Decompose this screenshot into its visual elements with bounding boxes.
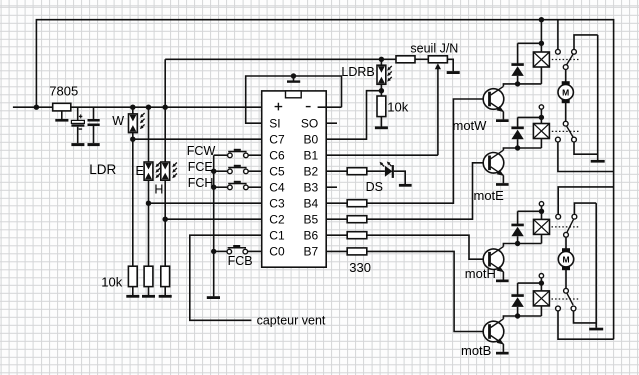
lever H — [567, 219, 574, 232]
svg-text:motB: motB — [461, 343, 491, 358]
pin B3 stub — [326, 186, 337, 188]
node diode B bottom — [515, 313, 520, 318]
node rail W — [130, 105, 135, 110]
svg-text:B5: B5 — [304, 212, 319, 226]
svg-text:LDRB: LDRB — [341, 65, 374, 79]
resistor 10k day/night — [377, 96, 386, 117]
motor M elevation — [558, 248, 573, 270]
node rail H — [163, 105, 168, 110]
ground DS — [394, 171, 405, 184]
wire diode H link top — [518, 210, 542, 212]
contact H pole — [564, 232, 569, 237]
svg-text:seuil J/N: seuil J/N — [410, 41, 458, 55]
IC shift register — [262, 91, 327, 267]
resistor 330 B7 — [347, 248, 367, 255]
wire +5V rail — [13, 106, 271, 108]
wire B5 — [326, 218, 347, 220]
svg-text:motH: motH — [465, 266, 496, 281]
diode D3 flyback H — [517, 211, 519, 224]
wire ground loop to SI — [246, 76, 342, 123]
node coil H top — [539, 209, 544, 214]
terminal circle E supply — [539, 105, 543, 109]
svg-text:C5: C5 — [269, 164, 285, 178]
switch FCB — [214, 250, 227, 252]
lever B — [567, 293, 573, 305]
resistor seuil series — [396, 56, 415, 63]
svg-text:H: H — [154, 183, 163, 197]
svg-text:B0: B0 — [304, 132, 319, 146]
motor M azimuth — [558, 81, 573, 103]
node FCE tap — [211, 169, 216, 174]
ground motB emitter — [502, 344, 504, 352]
ground relay group 1 — [597, 35, 599, 160]
ground under C2 — [88, 143, 100, 146]
svg-text:C0: C0 — [269, 245, 285, 259]
switch FCH — [214, 186, 228, 188]
svg-text:W: W — [112, 114, 124, 128]
wire B7 to motB base — [367, 251, 489, 331]
diode D2 flyback E — [517, 117, 519, 127]
relay coil E — [533, 124, 549, 139]
contact E left to +12V — [556, 137, 561, 142]
wire C7 — [133, 138, 262, 140]
node +12V tap — [34, 105, 39, 110]
ground under 10k H — [164, 287, 166, 295]
wire diode W link top — [518, 42, 542, 44]
contact W left — [557, 20, 559, 50]
node LDRB bottom — [380, 84, 382, 96]
relay coil W — [533, 52, 549, 67]
wire pole H to motor — [565, 237, 567, 248]
svg-text:B1: B1 — [304, 148, 319, 162]
svg-text:B2: B2 — [304, 164, 319, 178]
svg-text:FCE: FCE — [188, 160, 213, 174]
svg-text:B4: B4 — [304, 196, 319, 210]
svg-text:FCH: FCH — [188, 176, 214, 190]
ground relay group 2 — [595, 203, 597, 328]
contact H right to ground — [574, 203, 596, 214]
node diode E bottom — [515, 145, 520, 150]
wire C2 — [165, 218, 262, 220]
pin SO stub — [326, 122, 337, 124]
relay coil H — [534, 219, 550, 234]
svg-text:FCW: FCW — [187, 144, 216, 158]
wire B5 to motE base — [367, 163, 489, 219]
wire B4 — [326, 202, 347, 204]
svg-text:C3: C3 — [269, 196, 285, 210]
svg-text:10k: 10k — [101, 275, 122, 290]
resistor 10k H — [161, 266, 170, 286]
svg-text:10k: 10k — [387, 100, 408, 115]
node diode H bottom — [515, 241, 520, 246]
svg-text:DS: DS — [366, 180, 383, 194]
capacitor C1 polarized — [77, 107, 79, 120]
LED DS — [385, 166, 393, 177]
wire C3 — [149, 202, 262, 204]
resistor 330 B2 — [347, 168, 367, 175]
wire diode B link top — [518, 282, 542, 284]
wire switch common to ground — [213, 155, 215, 296]
relay coil B — [533, 291, 549, 306]
wire B2 — [326, 170, 347, 172]
svg-text:B3: B3 — [304, 180, 319, 194]
node coil E top — [539, 115, 544, 120]
resistor 10k W — [128, 266, 137, 286]
svg-text:B6: B6 — [304, 228, 319, 242]
terminal circle H supply — [539, 202, 543, 206]
terminal circle B supply — [539, 274, 543, 278]
wire B4 to motW base — [367, 99, 489, 203]
resistor 330 B6 — [347, 232, 367, 239]
svg-text:capteur vent: capteur vent — [257, 313, 326, 327]
node E bottom / C3 — [146, 201, 151, 206]
svg-text:LDR: LDR — [89, 162, 116, 177]
contact B right to ground — [571, 306, 576, 311]
wire B6 — [326, 234, 347, 236]
wire motE collector — [503, 148, 541, 150]
contact H left — [556, 214, 561, 219]
ground motE emitter — [502, 175, 504, 183]
wire motB collector — [503, 316, 541, 319]
svg-text:B7: B7 — [304, 245, 319, 259]
node FCB tap — [211, 249, 216, 254]
photoresistor LDRB — [380, 59, 382, 65]
node rail E — [146, 105, 151, 110]
link B dotted — [552, 298, 580, 300]
wire motH collector — [503, 244, 541, 247]
node W bottom / C7 — [130, 137, 135, 142]
wire motor to pole E — [565, 103, 567, 121]
node coil B top — [539, 280, 544, 285]
link W dotted — [552, 59, 580, 61]
photoresistor E — [144, 162, 153, 180]
svg-text:motE: motE — [474, 188, 505, 203]
svg-text:C4: C4 — [269, 180, 285, 194]
ground under 7805 — [61, 111, 63, 119]
svg-text:C1: C1 — [269, 228, 285, 242]
wire +12V to contact H left — [558, 187, 613, 214]
wire pole W to motor — [565, 70, 567, 82]
potentiometer seuil J/N — [428, 56, 447, 63]
ground under 10k W — [132, 287, 134, 295]
wire C1 to wind sensor — [190, 235, 262, 320]
wire LDRB node to B0 — [326, 91, 381, 140]
node coil W top — [539, 41, 544, 46]
ground seuil — [447, 59, 453, 71]
capacitor C2 — [93, 107, 95, 119]
svg-text:C6: C6 — [269, 148, 285, 162]
wire motor to pole B — [565, 270, 567, 288]
wire motW collector — [503, 84, 541, 87]
wire B7 — [326, 250, 347, 252]
photoresistor H — [161, 162, 170, 180]
contact E right to ground — [572, 137, 577, 142]
transistor motW — [483, 86, 504, 112]
wire E column — [148, 107, 150, 266]
wire coil W feed — [540, 20, 542, 52]
regulator 7805 — [53, 103, 71, 111]
lever W — [567, 54, 574, 65]
svg-text:C2: C2 — [269, 212, 285, 226]
link H dotted — [552, 226, 580, 228]
svg-text:SI: SI — [269, 116, 280, 130]
contact B pole — [564, 288, 569, 293]
resistor 10k E — [144, 266, 153, 286]
resistor 330 B5 — [347, 216, 367, 223]
ground motH emitter — [502, 272, 504, 280]
lever E — [567, 126, 573, 137]
svg-text:SO: SO — [301, 116, 318, 130]
ground IC top — [291, 73, 296, 78]
svg-text:7805: 7805 — [49, 84, 78, 99]
ground under 10k E — [148, 287, 150, 295]
link E dotted — [552, 130, 580, 132]
contact E pole — [563, 121, 568, 126]
contact B left to +12V — [556, 306, 561, 311]
svg-text:FCB: FCB — [228, 254, 253, 268]
ground under C1 — [71, 143, 84, 146]
wire +12V rail from input to relay section — [36, 20, 613, 340]
photoresistor W — [129, 114, 138, 133]
node H bottom / C2 — [163, 217, 168, 222]
svg-text:330: 330 — [349, 260, 371, 275]
diode D1 flyback W — [517, 43, 519, 64]
switch FCE — [214, 170, 228, 172]
wire B6 to motH base — [367, 235, 489, 259]
ground motW emitter — [502, 112, 504, 120]
wire H column and LDRB feed riser — [164, 59, 166, 266]
svg-text:E: E — [136, 164, 144, 178]
svg-text:motW: motW — [453, 118, 488, 133]
pin + — [275, 103, 283, 111]
diode D4 flyback B — [517, 283, 519, 295]
ground under 10k — [380, 117, 382, 127]
node LDRB top — [379, 57, 384, 62]
transistor motB — [483, 319, 504, 345]
transistor motH — [483, 247, 504, 273]
pin - — [306, 106, 311, 108]
transistor motE — [483, 150, 504, 176]
svg-text:C7: C7 — [269, 132, 285, 146]
node diode W bottom — [515, 81, 520, 86]
resistor 330 B4 — [347, 200, 367, 207]
switch FCW — [214, 154, 228, 156]
node rail to coil W — [539, 17, 544, 22]
node FCH tap — [211, 185, 216, 190]
contact W right to ground rail — [574, 35, 598, 50]
wire LDRB feed — [165, 58, 396, 60]
wire W column — [132, 107, 134, 266]
ground switch common — [207, 296, 220, 299]
contact W pole — [563, 65, 568, 70]
wire diode E link top — [518, 116, 542, 118]
wire B1 to wiper — [326, 154, 438, 156]
